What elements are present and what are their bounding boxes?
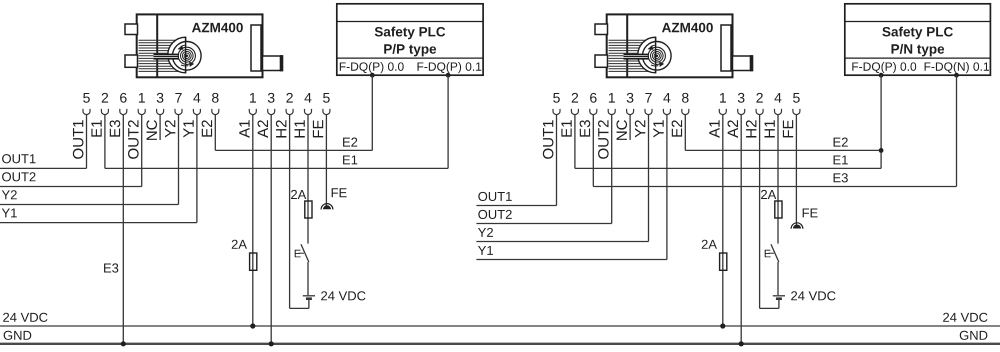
AZM400 unit 1 body xyxy=(137,14,263,77)
terminal pin 4 (Y1) xyxy=(653,93,670,138)
terminal pin 6 (E3) xyxy=(580,93,597,137)
AZM400 unit 2 lock rotor half-disc xyxy=(638,37,656,73)
terminal pin 1 (OUT2) xyxy=(598,93,615,159)
battery G2 24 VDC xyxy=(773,291,836,300)
AZM400 unit 2 lock knob outer circle xyxy=(643,42,672,71)
AZM400 unit 2 lock target rings xyxy=(648,47,665,64)
GND rail xyxy=(0,331,1000,344)
AZM400 unit 1 actuator hatch lines xyxy=(139,40,179,71)
fuse F3 2A xyxy=(702,240,727,271)
AZM400 unit 2 actuator bar (dark striped) xyxy=(624,54,650,60)
terminal pin 3 (A2) xyxy=(258,93,275,138)
AZM400 unit 1 left mounting tab lower xyxy=(125,55,138,67)
terminal pin 6 (E3) xyxy=(110,93,127,137)
Safety PLC U2 output terminal dots xyxy=(879,73,959,78)
AZM400 unit 1 rotation arrow upper (ccw) xyxy=(177,45,186,50)
AZM400 unit 1 actuator bar (dark striped) xyxy=(154,54,180,60)
AZM400 unit 1 title label xyxy=(192,23,243,33)
wire NC stub (unit 2) xyxy=(629,115,631,140)
fuse F4 2A xyxy=(761,190,782,218)
wire H2 return (unit 2) xyxy=(760,115,779,309)
wire A2 to GND (unit 1) xyxy=(270,115,272,344)
wire H2 return (unit 1) xyxy=(290,115,309,309)
wire OUT2 stub (unit 2) xyxy=(476,115,611,224)
wire A1 to 24VDC (unit 1) xyxy=(252,115,254,326)
wire H1 chain (unit 2) xyxy=(777,115,780,309)
junction E3/GND xyxy=(121,341,126,346)
terminal pin 1 (A1) xyxy=(239,93,256,138)
AZM400 unit 2 left mounting tab lower xyxy=(595,55,608,67)
wire FE (unit 1) xyxy=(326,115,346,207)
Safety PLC U1 box xyxy=(337,4,483,75)
AZM400 unit 2 actuator hatch lines xyxy=(609,40,649,71)
Safety PLC U1 output channel labels xyxy=(340,62,481,73)
Safety PLC U1 output terminal dots xyxy=(370,73,451,78)
AZM400 unit 2 rotor chord line xyxy=(655,37,657,73)
wire OUT1 stub (unit 2) xyxy=(476,115,556,206)
wire E2 to PLC1 F-DQ(P) 0.0 xyxy=(215,75,372,150)
terminal pin 4 (Y1) xyxy=(183,93,200,138)
wire E1 to PLC2 (unit 2) xyxy=(575,115,881,169)
AZM400 unit 2 sensor slot rectangle xyxy=(721,25,731,71)
junction A2/GND xyxy=(269,341,274,346)
wire Y2 stub (unit 2) xyxy=(476,115,648,242)
wire FE (unit 2) xyxy=(796,115,817,226)
terminal pin 7 (Y2) xyxy=(635,93,652,138)
fuse F2 2A xyxy=(291,190,312,218)
AZM400 unit 1 internal partition line xyxy=(156,14,158,77)
terminal pin 1 (OUT2) xyxy=(128,93,145,159)
functional earth symbol unit 1 xyxy=(321,204,333,210)
wire E3 to PLC2 F-DQ(N) 0.1 (unit 2) xyxy=(593,75,956,186)
AZM400 unit 2 left mounting tab upper xyxy=(595,24,608,35)
terminal pin 8 (E2) xyxy=(672,93,689,137)
functional earth symbol unit 2 xyxy=(791,223,803,229)
AZM400 unit 1 sensor slot rectangle xyxy=(251,25,261,71)
terminal pin 5 (OUT1) xyxy=(543,93,560,159)
terminal pin 5 (OUT1) xyxy=(73,93,90,159)
terminal pin 2 (E1) xyxy=(561,93,578,137)
terminal pin 2 (H2) xyxy=(276,93,293,138)
switch contact S1 (E actuated) xyxy=(295,244,309,262)
AZM400 unit 1 rotor chord line xyxy=(185,37,187,73)
terminal pin 3 (A2) xyxy=(728,93,745,138)
AZM400 unit 1 left mounting tab upper xyxy=(125,24,138,35)
AZM400 unit 2 title label xyxy=(662,23,713,33)
wire A2 to GND (unit 2) xyxy=(740,115,742,344)
24 VDC supply rail xyxy=(0,313,1000,326)
wire E1 to PLC1 F-DQ(P) 0.1 xyxy=(105,75,448,168)
fuse F1 2A xyxy=(232,240,257,271)
terminal pin 5 (FE) xyxy=(783,93,800,137)
AZM400 unit 1 locking bolt xyxy=(263,55,284,71)
wire E2 to PLC2 (unit 2) xyxy=(685,115,881,151)
AZM400 unit 2 body xyxy=(607,14,733,77)
AZM400 unit 2 rotation arrow upper (ccw) xyxy=(647,45,656,50)
terminal pin 3 (NC) xyxy=(146,93,163,140)
wire PLC2 F-DQ(P) 0.0 drop xyxy=(880,75,882,168)
terminal pin 3 (NC) xyxy=(616,93,633,140)
wire Y1 stub (unit 2) xyxy=(476,115,667,260)
Safety PLC U1 title xyxy=(375,27,446,57)
AZM400 unit 2 rotation arrow lower (cw) xyxy=(651,62,664,67)
wire OUT1 (unit 1) xyxy=(0,115,87,169)
AZM400 unit 2 locking bolt xyxy=(733,55,754,71)
wire A1 to 24VDC (unit 2) xyxy=(722,115,724,326)
terminal pin 2 (E1) xyxy=(91,93,108,137)
wire Y2 (unit 1) xyxy=(0,115,179,205)
Safety PLC U2 output channel labels xyxy=(852,62,989,73)
AZM400 unit 1 lock target rings xyxy=(178,47,195,64)
AZM400 unit 1 rotation arrow lower (cw) xyxy=(181,62,194,67)
terminal pin 8 (E2) xyxy=(202,93,219,137)
junction A1/24VDC unit2 xyxy=(720,323,725,328)
junction A1/24VDC xyxy=(250,323,255,328)
AZM400 unit 1 lock knob outer circle xyxy=(173,42,202,71)
AZM400 unit 1 lock rotor half-disc xyxy=(168,37,186,73)
wire H1 chain (unit 1) xyxy=(307,115,310,309)
terminal pin 4 (H1) xyxy=(764,93,781,137)
AZM400 unit 2 internal partition line xyxy=(626,14,628,77)
battery G1 24 VDC xyxy=(303,291,366,300)
junction E2 / F-DQ(P) drop xyxy=(879,148,884,153)
wire OUT2 (unit 1) xyxy=(0,115,142,187)
wire NC stub (unit 1) xyxy=(159,115,161,140)
terminal pin 5 (FE) xyxy=(313,93,330,137)
terminal pin 1 (A1) xyxy=(709,93,726,138)
Safety PLC U2 box xyxy=(845,4,991,75)
terminal pin 2 (H2) xyxy=(746,93,763,138)
wire E3 to GND (unit 1) xyxy=(104,115,123,344)
terminal pin 4 (H1) xyxy=(294,93,311,137)
wire Y1 (unit 1) xyxy=(0,115,197,223)
switch contact S2 (E actuated) xyxy=(765,244,779,262)
junction A2/GND unit2 xyxy=(739,341,744,346)
Safety PLC U2 title xyxy=(882,27,953,57)
terminal pin 7 (Y2) xyxy=(165,93,182,138)
